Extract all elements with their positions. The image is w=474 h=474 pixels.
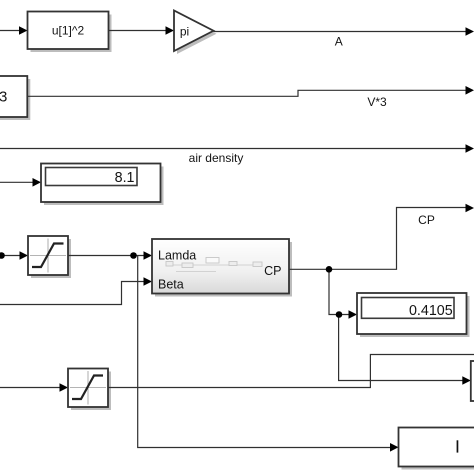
svg-text:u[1]^2: u[1]^2	[52, 24, 85, 38]
svg-text:0.4105: 0.4105	[409, 303, 453, 319]
svg-text:3: 3	[0, 89, 7, 106]
svg-text:A: A	[335, 34, 343, 48]
svg-text:air density: air density	[189, 151, 244, 165]
svg-text:V*3: V*3	[367, 95, 387, 109]
svg-text:pi: pi	[180, 25, 189, 39]
svg-text:CP: CP	[418, 213, 435, 227]
svg-text:Lamda: Lamda	[158, 249, 196, 263]
svg-text:CP: CP	[264, 264, 281, 278]
svg-text:8.1: 8.1	[115, 170, 135, 186]
svg-text:Beta: Beta	[158, 278, 184, 292]
